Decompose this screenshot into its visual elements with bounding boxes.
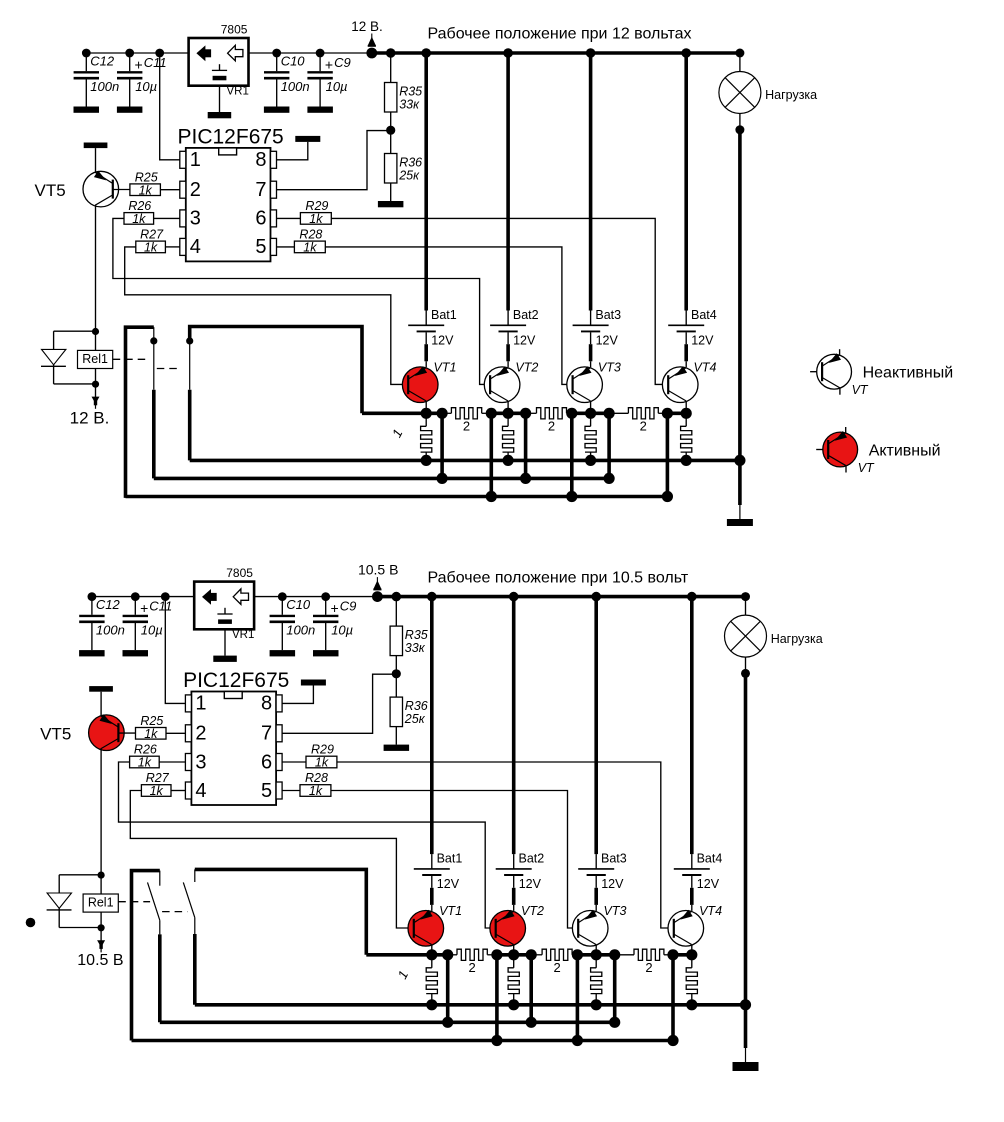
svg-text:10.5 В: 10.5 В: [77, 952, 123, 969]
svg-text:R26: R26: [134, 743, 157, 757]
svg-text:8: 8: [255, 149, 266, 171]
svg-text:1k: 1k: [309, 212, 323, 226]
svg-text:Bat3: Bat3: [601, 852, 627, 866]
svg-text:1k: 1k: [309, 784, 323, 798]
svg-text:1k: 1k: [132, 212, 146, 226]
svg-text:VT4: VT4: [694, 360, 717, 374]
svg-text:VT5: VT5: [35, 181, 66, 200]
svg-text:Bat4: Bat4: [691, 308, 717, 322]
svg-text:12V: 12V: [437, 877, 460, 891]
svg-text:5: 5: [255, 236, 266, 258]
svg-text:Нагрузка: Нагрузка: [765, 88, 817, 102]
svg-text:3: 3: [195, 751, 206, 773]
svg-text:100n: 100n: [90, 79, 119, 94]
svg-text:R26: R26: [128, 199, 151, 213]
svg-text:VT2: VT2: [521, 904, 544, 918]
svg-text:12 В.: 12 В.: [351, 19, 383, 34]
svg-text:3: 3: [190, 208, 201, 230]
svg-text:2: 2: [640, 419, 647, 434]
svg-text:VT1: VT1: [434, 360, 457, 374]
svg-text:7805: 7805: [226, 566, 253, 580]
svg-text:Bat2: Bat2: [519, 852, 545, 866]
svg-text:R36: R36: [399, 156, 422, 170]
svg-text:1k: 1k: [144, 241, 158, 255]
svg-text:2: 2: [195, 723, 206, 745]
svg-text:R35: R35: [405, 628, 428, 642]
svg-text:2: 2: [645, 960, 652, 975]
svg-text:33к: 33к: [399, 98, 420, 112]
svg-text:R27: R27: [140, 228, 164, 242]
svg-text:12V: 12V: [697, 877, 720, 891]
svg-text:VT: VT: [852, 383, 869, 397]
svg-text:4: 4: [190, 236, 201, 258]
svg-text:R29: R29: [305, 199, 328, 213]
svg-text:VT4: VT4: [699, 904, 722, 918]
svg-text:R29: R29: [311, 743, 334, 757]
svg-text:Bat2: Bat2: [513, 308, 539, 322]
svg-text:R25: R25: [135, 170, 158, 184]
svg-text:R27: R27: [146, 771, 170, 785]
svg-text:R28: R28: [305, 771, 328, 785]
svg-text:+: +: [140, 600, 148, 616]
svg-text:C11: C11: [149, 599, 172, 614]
svg-text:12V: 12V: [691, 334, 714, 348]
svg-text:Рабочее положение при 12 вольт: Рабочее положение при 12 вольтах: [428, 26, 692, 43]
svg-text:10µ: 10µ: [135, 79, 157, 94]
svg-text:Bat1: Bat1: [431, 308, 457, 322]
svg-text:10µ: 10µ: [326, 79, 348, 94]
svg-text:Рабочее положение при 10.5 вол: Рабочее положение при 10.5 вольт: [428, 570, 689, 587]
svg-text:+: +: [135, 57, 143, 73]
svg-text:12V: 12V: [513, 334, 536, 348]
svg-text:1k: 1k: [303, 241, 317, 255]
svg-text:C11: C11: [144, 55, 167, 70]
svg-text:6: 6: [255, 208, 266, 230]
svg-text:10µ: 10µ: [141, 623, 163, 638]
svg-text:Нагрузка: Нагрузка: [771, 632, 823, 646]
svg-text:2: 2: [190, 179, 201, 201]
svg-text:1k: 1k: [144, 727, 158, 741]
svg-text:100n: 100n: [281, 79, 310, 94]
svg-text:VT5: VT5: [40, 724, 71, 743]
svg-text:12V: 12V: [596, 334, 619, 348]
svg-text:10.5 В: 10.5 В: [358, 562, 398, 578]
svg-text:7805: 7805: [221, 23, 248, 37]
svg-text:7: 7: [255, 179, 266, 201]
svg-text:12 В.: 12 В.: [70, 409, 110, 428]
svg-text:VR1: VR1: [227, 86, 249, 98]
svg-text:R25: R25: [140, 714, 163, 728]
svg-text:VT: VT: [858, 461, 875, 475]
svg-text:100n: 100n: [286, 623, 315, 638]
svg-text:Bat3: Bat3: [595, 308, 621, 322]
svg-text:Неактивный: Неактивный: [863, 365, 954, 382]
svg-text:+: +: [325, 57, 333, 73]
svg-text:25к: 25к: [398, 169, 420, 183]
svg-text:2: 2: [463, 419, 470, 434]
svg-text:Rel1: Rel1: [82, 352, 108, 366]
svg-text:6: 6: [261, 751, 272, 773]
svg-text:R35: R35: [399, 85, 422, 99]
svg-text:Активный: Активный: [869, 443, 941, 460]
svg-text:5: 5: [261, 780, 272, 802]
svg-text:PIC12F675: PIC12F675: [178, 126, 284, 149]
svg-text:12V: 12V: [431, 334, 454, 348]
svg-text:C10: C10: [281, 54, 306, 69]
svg-text:100n: 100n: [96, 623, 125, 638]
svg-text:VT2: VT2: [515, 360, 538, 374]
svg-text:1: 1: [195, 693, 206, 715]
svg-text:C10: C10: [286, 597, 311, 612]
svg-text:1k: 1k: [138, 756, 152, 770]
svg-text:12V: 12V: [601, 877, 624, 891]
svg-text:1k: 1k: [150, 784, 164, 798]
svg-text:2: 2: [468, 960, 475, 975]
svg-text:VR1: VR1: [232, 629, 254, 641]
svg-text:2: 2: [548, 419, 555, 434]
svg-text:7: 7: [261, 723, 272, 745]
svg-text:10µ: 10µ: [331, 623, 353, 638]
svg-text:33к: 33к: [405, 641, 426, 655]
svg-text:R36: R36: [405, 699, 428, 713]
svg-text:1: 1: [190, 149, 201, 171]
svg-text:25к: 25к: [404, 712, 426, 726]
svg-text:4: 4: [195, 780, 206, 802]
svg-text:VT1: VT1: [439, 904, 462, 918]
svg-text:C9: C9: [334, 55, 351, 70]
svg-text:1k: 1k: [139, 183, 153, 197]
svg-text:Bat1: Bat1: [437, 852, 463, 866]
svg-text:PIC12F675: PIC12F675: [183, 669, 289, 692]
svg-text:8: 8: [261, 693, 272, 715]
svg-text:VT3: VT3: [604, 904, 627, 918]
svg-text:Bat4: Bat4: [697, 852, 723, 866]
svg-text:C9: C9: [340, 599, 357, 614]
svg-text:VT3: VT3: [598, 360, 621, 374]
svg-text:R28: R28: [299, 228, 322, 242]
svg-text:2: 2: [553, 960, 560, 975]
svg-text:C12: C12: [90, 54, 115, 69]
svg-text:12V: 12V: [519, 877, 542, 891]
svg-text:Rel1: Rel1: [88, 896, 114, 910]
svg-text:+: +: [331, 600, 339, 616]
svg-text:1k: 1k: [315, 756, 329, 770]
svg-text:C12: C12: [96, 597, 121, 612]
